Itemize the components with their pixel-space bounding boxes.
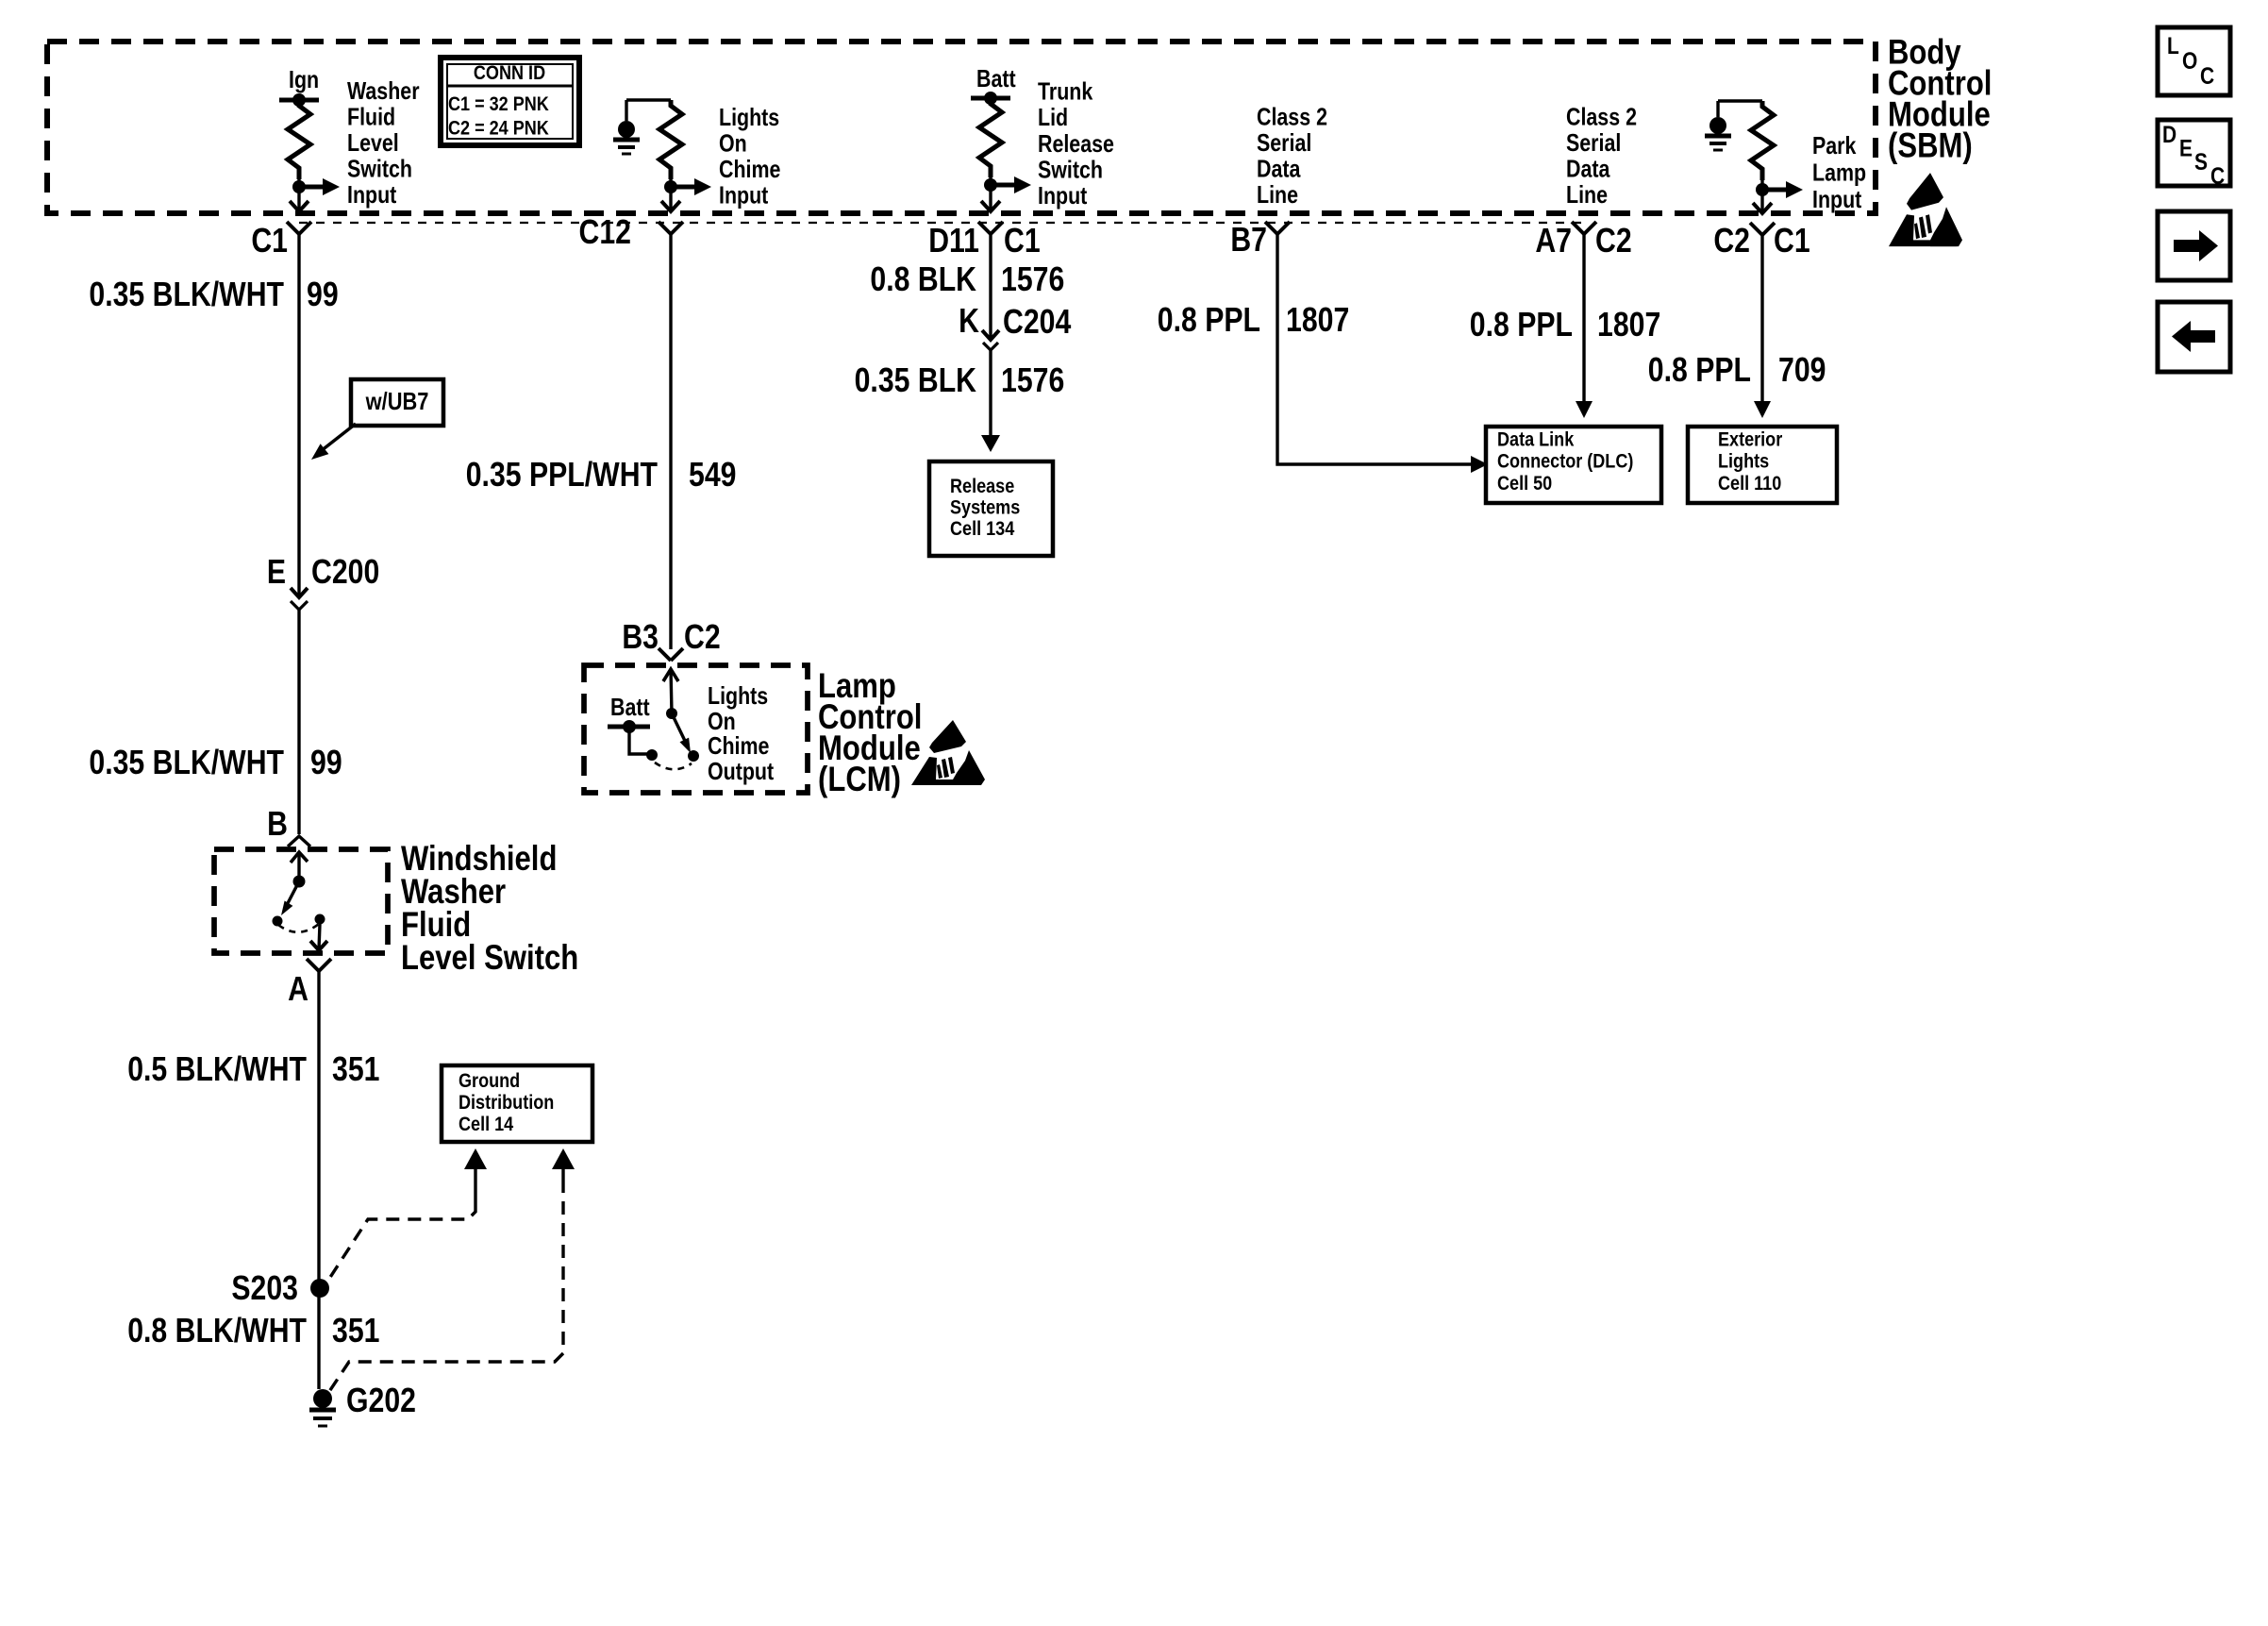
svg-text:C: C xyxy=(2210,162,2225,189)
svg-text:Ground: Ground xyxy=(459,1070,520,1093)
svg-text:Trunk: Trunk xyxy=(1038,78,1093,105)
switch blade xyxy=(287,881,299,905)
w/UB7 box xyxy=(351,379,443,426)
svg-text:Lid: Lid xyxy=(1038,104,1068,130)
down arrow into connector xyxy=(1753,203,1772,213)
Body Control Module (SBM) dashed box xyxy=(47,42,1876,213)
svg-text:Level: Level xyxy=(347,129,399,156)
svg-text:351: 351 xyxy=(332,1051,379,1089)
class 2 serial data line label (B7) xyxy=(1257,104,1327,209)
svg-text:Class 2: Class 2 xyxy=(1566,104,1637,130)
lights on chime output label xyxy=(708,682,774,784)
svg-text:Exterior: Exterior xyxy=(1718,428,1782,451)
svg-text:Level Switch: Level Switch xyxy=(401,939,578,978)
svg-text:Lights: Lights xyxy=(1718,450,1769,473)
svg-text:0.35 PPL/WHT: 0.35 PPL/WHT xyxy=(466,457,658,495)
svg-text:Switch: Switch xyxy=(347,156,412,182)
Lamp Control Module (LCM) label xyxy=(818,667,922,799)
Release Systems Cell 134 box xyxy=(929,461,1053,556)
svg-text:D11: D11 xyxy=(928,223,979,260)
junction xyxy=(1756,183,1769,196)
svg-text:Cell 50: Cell 50 xyxy=(1497,473,1552,495)
svg-text:(LCM): (LCM) xyxy=(818,761,901,799)
svg-text:C2: C2 xyxy=(1595,223,1632,260)
contact dot right xyxy=(688,750,699,762)
svg-text:709: 709 xyxy=(1778,352,1826,390)
wire 549 xyxy=(669,234,672,649)
arrow right (input tap) xyxy=(299,185,323,190)
svg-text:99: 99 xyxy=(307,277,339,314)
svg-text:Chime: Chime xyxy=(719,156,780,182)
junction xyxy=(664,180,677,193)
DESC button xyxy=(2158,120,2230,186)
svg-text:0.5 BLK/WHT: 0.5 BLK/WHT xyxy=(127,1051,307,1089)
svg-text:Connector (DLC): Connector (DLC) xyxy=(1497,450,1633,473)
svg-text:Systems: Systems xyxy=(950,496,1020,519)
svg-text:C1: C1 xyxy=(1774,223,1810,260)
down arrow into connector xyxy=(290,201,309,211)
svg-text:C200: C200 xyxy=(311,554,379,592)
svg-text:E: E xyxy=(267,554,286,592)
svg-text:Switch: Switch xyxy=(1038,157,1103,183)
svg-text:1807: 1807 xyxy=(1286,302,1349,340)
Ign feed bar xyxy=(279,98,319,103)
svg-text:0.8 PPL: 0.8 PPL xyxy=(1470,307,1573,344)
ESD symbol (LCM) xyxy=(911,720,985,785)
svg-text:Cell 14: Cell 14 xyxy=(459,1114,513,1136)
switch pivot xyxy=(666,708,677,719)
svg-text:Input: Input xyxy=(719,182,768,209)
svg-text:O: O xyxy=(2182,47,2197,74)
svg-text:Lights: Lights xyxy=(708,682,768,709)
svg-text:D: D xyxy=(2162,121,2176,147)
switch blade xyxy=(672,713,685,741)
svg-text:w/UB7: w/UB7 xyxy=(365,388,429,415)
down arrow into connector xyxy=(661,201,680,211)
svg-text:CONN ID: CONN ID xyxy=(474,62,545,85)
junction xyxy=(292,180,306,193)
svg-text:C2 = 24 PNK: C2 = 24 PNK xyxy=(448,117,549,140)
Data Link Connector (DLC) Cell 50 box xyxy=(1486,427,1661,503)
svg-text:B: B xyxy=(267,806,288,844)
svg-text:C204: C204 xyxy=(1003,304,1072,342)
svg-text:Cell 134: Cell 134 xyxy=(950,518,1014,541)
park lamp input label xyxy=(1812,132,1866,212)
next arrow button xyxy=(2158,211,2230,280)
windshield washer fluid level switch label xyxy=(401,840,578,978)
svg-text:C2: C2 xyxy=(1713,223,1750,260)
svg-text:99: 99 xyxy=(310,745,342,782)
connector K C204 xyxy=(982,330,999,340)
class 2 serial data line label (A7) xyxy=(1566,104,1637,209)
ESD symbol (SBM) xyxy=(1889,173,1962,246)
svg-text:Distribution: Distribution xyxy=(459,1092,554,1115)
Ground Distribution Cell 14 box xyxy=(442,1065,592,1142)
wire to pin A xyxy=(319,924,320,949)
wire 1576 lower xyxy=(989,350,992,435)
svg-text:A7: A7 xyxy=(1535,223,1572,260)
ground (park lamp) xyxy=(1716,101,1719,117)
LOC button xyxy=(2158,27,2230,95)
w/UB7 arrow xyxy=(321,424,356,451)
svg-text:0.8 BLK/WHT: 0.8 BLK/WHT xyxy=(127,1313,307,1350)
wire 709 xyxy=(1760,235,1763,402)
svg-text:Serial: Serial xyxy=(1257,129,1311,156)
svg-text:0.35 BLK/WHT: 0.35 BLK/WHT xyxy=(89,745,284,782)
connector fork C2 C1 xyxy=(1750,223,1775,235)
svg-text:C: C xyxy=(2200,62,2214,89)
resistor (lights on chime input) xyxy=(659,100,682,179)
svg-text:351: 351 xyxy=(332,1313,379,1350)
wire 1576 xyxy=(989,234,992,340)
ground distribution arrow left xyxy=(464,1148,487,1169)
windshield washer fluid level switch dashed box xyxy=(214,849,388,953)
wire 1807 down to DLC xyxy=(1582,234,1585,402)
svg-text:Lights: Lights xyxy=(719,104,779,130)
svg-text:Output: Output xyxy=(708,758,774,784)
connector E C200 xyxy=(291,588,308,597)
svg-text:C2: C2 xyxy=(684,619,721,657)
connector boundary dashed line xyxy=(299,222,1583,224)
svg-text:C12: C12 xyxy=(579,214,631,252)
svg-text:Data: Data xyxy=(1257,156,1301,182)
svg-text:On: On xyxy=(719,130,747,157)
svg-text:Batt: Batt xyxy=(610,694,650,720)
svg-text:Release: Release xyxy=(1038,130,1114,157)
contact dot right xyxy=(315,914,325,925)
batt bar xyxy=(608,725,650,729)
svg-text:Line: Line xyxy=(1257,181,1298,208)
svg-text:Release: Release xyxy=(950,476,1014,498)
svg-text:A: A xyxy=(288,971,309,1009)
svg-text:Input: Input xyxy=(1812,186,1861,212)
ground distribution arrow right xyxy=(552,1148,575,1169)
svg-text:549: 549 xyxy=(689,457,736,495)
svg-text:0.35 BLK: 0.35 BLK xyxy=(855,362,976,400)
svg-text:Park: Park xyxy=(1812,132,1857,159)
Lamp Control Module dashed box xyxy=(584,665,808,793)
dashed link S203 xyxy=(474,1169,476,1204)
ground (chime input) xyxy=(625,100,627,121)
svg-text:Input: Input xyxy=(347,181,396,208)
svg-text:(SBM): (SBM) xyxy=(1888,126,1973,165)
prev arrow button xyxy=(2158,302,2230,372)
svg-text:0.8 PPL: 0.8 PPL xyxy=(1648,352,1751,390)
wire xyxy=(629,727,649,754)
svg-text:Data: Data xyxy=(1566,156,1610,182)
dashed link G202 xyxy=(561,1169,564,1180)
wire 351 xyxy=(317,971,320,1389)
LCM output arrow up xyxy=(663,669,678,681)
svg-text:Ign: Ign xyxy=(289,66,319,92)
wire 99 lower xyxy=(297,610,300,834)
down arrow into connector xyxy=(981,201,1000,211)
svg-text:Washer: Washer xyxy=(347,77,420,104)
dashed throw arc xyxy=(655,763,692,769)
Exterior Lights Cell 110 box xyxy=(1688,427,1837,503)
svg-text:Data Link: Data Link xyxy=(1497,428,1575,451)
svg-text:K: K xyxy=(959,303,979,341)
svg-text:Lamp: Lamp xyxy=(1812,159,1866,186)
contact dot left xyxy=(646,749,658,761)
svg-text:E: E xyxy=(2179,135,2193,161)
svg-text:B3: B3 xyxy=(622,619,659,657)
resistor (park lamp input) xyxy=(1751,101,1774,180)
switch pivot xyxy=(293,876,306,888)
svg-text:0.8 PPL: 0.8 PPL xyxy=(1158,302,1260,340)
connector fork B3 xyxy=(659,648,683,661)
wire 99 xyxy=(297,234,300,597)
trunk lid release switch input label xyxy=(1038,78,1114,210)
junction xyxy=(984,178,997,192)
svg-text:B7: B7 xyxy=(1230,222,1267,260)
svg-text:S: S xyxy=(2194,148,2208,175)
junction xyxy=(292,93,306,107)
batt bar xyxy=(971,96,1010,101)
connector fork A7 C2 xyxy=(1572,222,1596,234)
svg-text:C1: C1 xyxy=(1004,223,1041,260)
svg-text:Chime: Chime xyxy=(708,732,769,759)
svg-text:C1: C1 xyxy=(251,223,288,260)
wire 1807 elbow to DLC xyxy=(1277,234,1471,464)
connector fork C1 xyxy=(287,222,311,234)
contact dot left xyxy=(273,916,283,927)
Body Control Module (SBM) label xyxy=(1888,33,1992,165)
svg-text:L: L xyxy=(2167,32,2179,59)
resistor (trunk lid release switch input) xyxy=(979,98,1002,177)
switch input arrow xyxy=(291,852,308,863)
svg-text:On: On xyxy=(708,708,736,734)
svg-text:0.8 BLK: 0.8 BLK xyxy=(870,261,976,299)
svg-text:1807: 1807 xyxy=(1597,307,1660,344)
lights on chime input label xyxy=(719,104,780,209)
svg-text:G202: G202 xyxy=(346,1383,416,1420)
svg-text:Fluid: Fluid xyxy=(347,104,395,130)
svg-text:0.35 BLK/WHT: 0.35 BLK/WHT xyxy=(89,277,284,314)
resistor (washer fluid level switch input) xyxy=(288,100,310,179)
ground G202 xyxy=(309,1389,336,1426)
connector fork B7 xyxy=(1265,222,1290,234)
svg-text:Line: Line xyxy=(1566,181,1608,208)
svg-text:S203: S203 xyxy=(231,1270,298,1308)
connector fork D11 C1 xyxy=(978,222,1003,234)
svg-text:C1 = 32 PNK: C1 = 32 PNK xyxy=(448,93,549,116)
wire xyxy=(297,179,300,211)
svg-text:1576: 1576 xyxy=(1001,261,1064,299)
arrowhead into release systems xyxy=(981,435,1000,452)
svg-text:Serial: Serial xyxy=(1566,129,1621,156)
svg-text:Cell 110: Cell 110 xyxy=(1718,473,1781,495)
splice S203 xyxy=(310,1279,329,1298)
connector fork C12 xyxy=(659,222,683,234)
washer fluid level switch input label xyxy=(347,77,420,208)
CONN ID box xyxy=(441,58,579,145)
dashed throw arc xyxy=(278,924,319,932)
svg-text:1576: 1576 xyxy=(1001,362,1064,400)
svg-text:Input: Input xyxy=(1038,182,1087,209)
svg-text:Batt: Batt xyxy=(976,65,1016,92)
svg-text:Class 2: Class 2 xyxy=(1257,104,1327,130)
